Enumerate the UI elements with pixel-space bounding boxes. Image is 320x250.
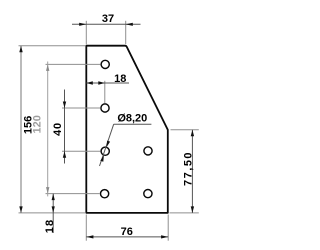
dim 156 line <box>20 46 22 213</box>
dim 156 extension top <box>19 45 86 47</box>
dim 18 top line <box>86 82 129 84</box>
dim 120 extension row4 <box>46 193 100 195</box>
dia callout arrows <box>107 141 111 148</box>
dim 40 arrows <box>63 102 66 109</box>
dia callout oblique line <box>100 124 114 166</box>
dim 156 arrows <box>19 46 22 53</box>
dim 37 arrows <box>79 23 86 26</box>
dim 40 line <box>64 90 66 164</box>
hole H6 bottom-right <box>144 190 152 198</box>
dim 18 top arrows <box>86 81 93 84</box>
dim 77,50 extension top <box>171 129 199 131</box>
dim 76 extension right <box>167 215 169 241</box>
dim 18 bottom line <box>52 194 54 233</box>
svg-text:Ø8,20: Ø8,20 <box>117 113 147 125</box>
dim 120 arrows <box>46 64 49 71</box>
dim 120 line <box>47 62 49 197</box>
hole H5 right-mid <box>144 147 152 155</box>
dia callout shoulder <box>114 123 152 125</box>
hole H1 top <box>101 60 109 68</box>
dim 76 line <box>86 236 168 238</box>
hole H2 <box>101 104 109 112</box>
svg-text:120: 120 <box>32 115 44 133</box>
dim 156 extension bottom <box>19 212 86 214</box>
plate outline <box>86 46 168 213</box>
dim 77,50 extension bottom <box>170 212 199 214</box>
svg-text:37: 37 <box>102 13 114 25</box>
dim 37 line <box>72 23 141 25</box>
hole H4 bottom-left <box>101 190 109 198</box>
dim 18 top extension <box>104 81 106 103</box>
dim 40 extension row2 <box>62 107 100 109</box>
hole H3 <box>101 147 109 155</box>
dim 76 arrows <box>86 235 93 238</box>
dim 37 extension lines <box>85 21 87 44</box>
dim 40 extension row3 <box>62 150 100 152</box>
svg-text:18: 18 <box>44 220 56 233</box>
dim 77,50 line <box>191 130 193 213</box>
svg-text:76: 76 <box>121 226 133 238</box>
svg-text:18: 18 <box>114 73 126 85</box>
svg-text:40: 40 <box>52 123 64 136</box>
dim 77,50 arrows <box>191 130 194 137</box>
dim 18 bottom arrows <box>52 194 55 201</box>
dim 76 extension left <box>85 215 87 241</box>
svg-text:77,50: 77,50 <box>183 152 195 186</box>
dim 120 extension row1 <box>46 63 101 65</box>
